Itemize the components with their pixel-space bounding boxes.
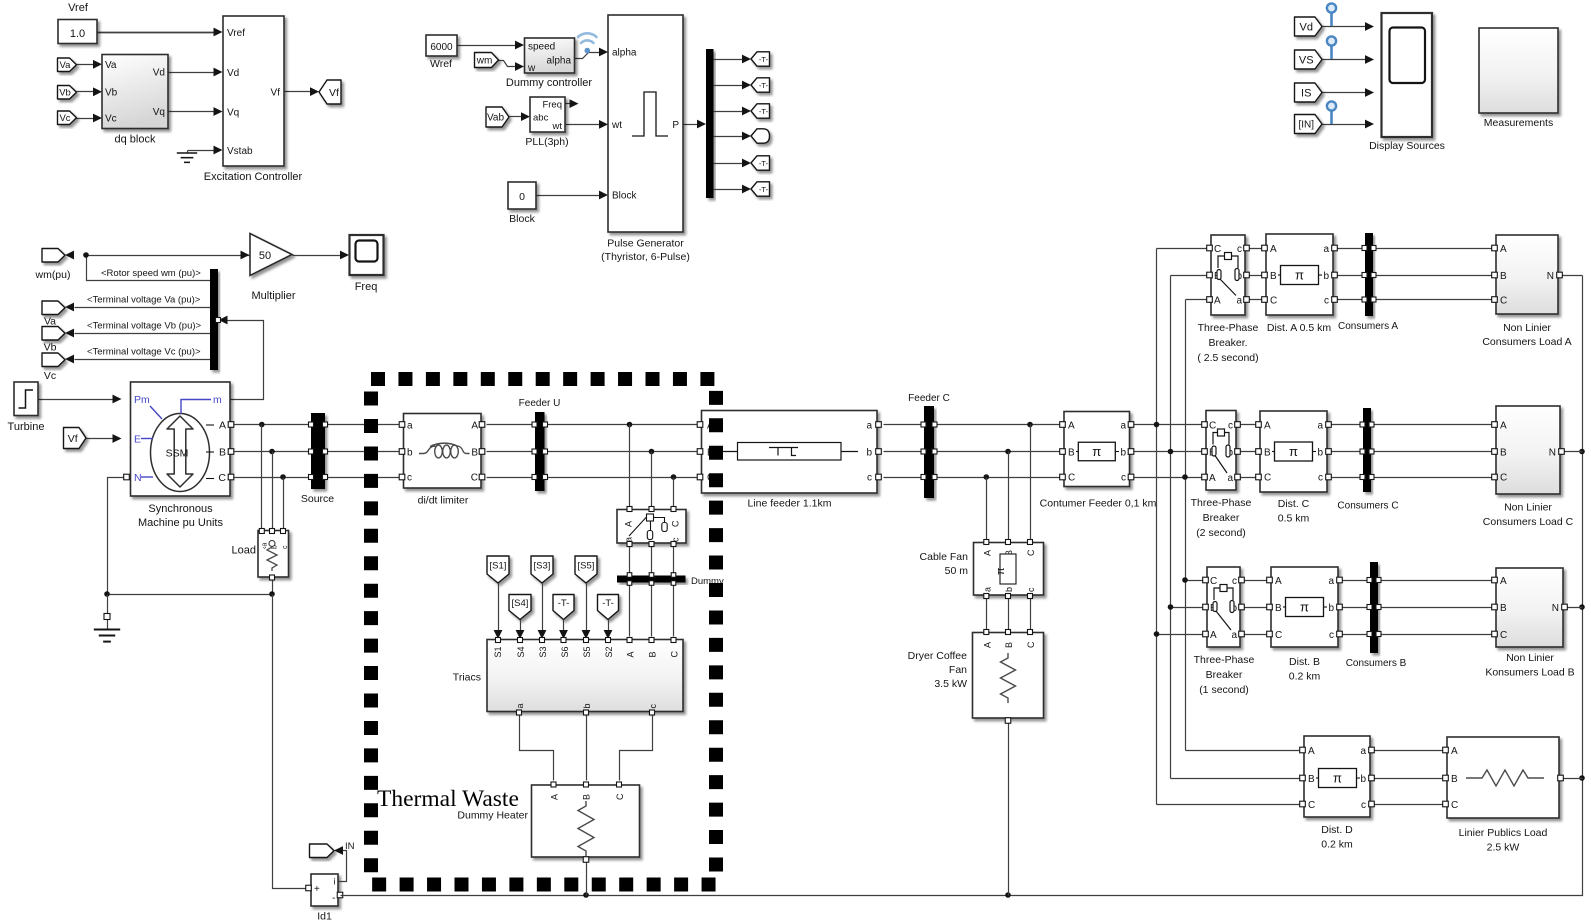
svg-text:Dummy controller: Dummy controller [506, 77, 593, 89]
wire tap C down to Dummy switch [673, 478, 675, 507]
svg-text:B: B [1275, 603, 1282, 614]
port squares Contumer Feeder [1060, 422, 1066, 428]
svg-text:B: B [1308, 774, 1315, 785]
block Contumer Feeder 0,1 km [1064, 412, 1130, 487]
constant block Vref 1.0 [58, 20, 97, 44]
wire tap A down to Load [261, 425, 263, 531]
block Dummy Heater [532, 785, 640, 857]
measurement bar Feeder C [924, 406, 934, 498]
svg-text:A: A [1308, 746, 1315, 757]
svg-text:w: w [527, 63, 536, 74]
port squares Line feeder [697, 422, 703, 428]
input tag [IN] [1295, 115, 1323, 134]
wire rotor speed from bus selector to wm(pu) tag and Multiplier [87, 256, 251, 281]
port squares Linier Publics Load [1443, 747, 1449, 753]
wire Dist A to Consumers A bar x3 [1334, 248, 1366, 250]
svg-text:A: A [1209, 473, 1216, 484]
block Load [258, 531, 289, 578]
block Three-Phase Breaker 1 second [1207, 567, 1240, 647]
wire Vref constant to Excitation Vref input [98, 32, 215, 34]
svg-text:A: A [1500, 421, 1507, 432]
wire Triacs c to Dummy Heater C [620, 715, 653, 781]
svg-text:b: b [1004, 587, 1014, 592]
block Non Linier Konsumers Load B [1496, 568, 1563, 647]
svg-text:a: a [1323, 244, 1329, 255]
measurement bar Consumers B [1370, 562, 1378, 653]
vertical distribution wire 1 [1156, 249, 1158, 805]
goto tag -T- 3 [751, 104, 770, 118]
svg-text:(Thyristor, 6-Pulse): (Thyristor, 6-Pulse) [601, 251, 690, 263]
vertical distribution wire 2 [1170, 276, 1172, 779]
svg-text:Vref: Vref [227, 28, 245, 39]
svg-text:Three-Phase: Three-Phase [1194, 654, 1255, 666]
svg-text:c: c [1329, 630, 1334, 641]
svg-text:a: a [866, 421, 872, 432]
svg-text:c: c [1228, 421, 1233, 432]
svg-text:IS: IS [1301, 87, 1311, 99]
wire phase A di/dt to Line feeder [487, 424, 698, 426]
subsystem PLL(3ph) [530, 97, 565, 132]
svg-text:c: c [648, 704, 658, 709]
junction neutral right [269, 591, 275, 597]
svg-text:Feeder U: Feeder U [519, 398, 561, 409]
svg-text:c: c [1324, 296, 1329, 307]
wire phase A Source to di/dt limiter [326, 424, 400, 426]
wire Breaker C to Dist C x3 [1237, 424, 1261, 426]
wire neutral down to ground [107, 595, 109, 630]
subsystem Dummy controller [525, 38, 575, 73]
svg-text:SSM: SSM [166, 448, 189, 460]
svg-text:π: π [995, 567, 1007, 575]
svg-text:wm(pu): wm(pu) [34, 269, 70, 281]
junction NL load B neutral [1579, 604, 1585, 610]
junction phase C to Dummy switch [671, 474, 677, 480]
wire NL Load C N to neutral [1561, 451, 1583, 453]
junction NL load C neutral [1579, 449, 1585, 455]
goto tag -T- 4 [751, 129, 770, 143]
svg-text:a: a [407, 421, 413, 432]
demux bar after Pulse Generator [706, 49, 714, 198]
svg-text:π: π [1295, 268, 1304, 283]
wire phase C di/dt to Line feeder [487, 477, 698, 479]
wire tap C down to Load [283, 478, 285, 531]
svg-text:c: c [1121, 473, 1126, 484]
svg-text:VS: VS [1299, 54, 1314, 66]
wire VS tag to Display Sources [1323, 59, 1366, 61]
port squares Source bar [309, 422, 314, 427]
svg-text:Pulse Generator: Pulse Generator [607, 238, 684, 250]
constant block 6000 Wref [426, 35, 457, 56]
svg-text:A: A [1500, 576, 1507, 587]
svg-text:abc: abc [533, 113, 549, 124]
svg-text:C: C [1264, 473, 1271, 484]
svg-text:wt: wt [611, 120, 622, 131]
wire Breaker B to Dist B x3 [1241, 580, 1272, 582]
svg-text:N: N [1547, 271, 1554, 282]
svg-text:B: B [1451, 774, 1458, 785]
goto tag -T- 6 [751, 182, 770, 196]
svg-text:C: C [1026, 641, 1036, 648]
goto tag -T- 1 [751, 52, 770, 66]
svg-text:Fan: Fan [949, 664, 967, 676]
wire Consumers C bar to NL Load C x3 [1372, 424, 1497, 426]
subsystem dq block [102, 55, 168, 129]
svg-text:C: C [218, 472, 226, 484]
junction v3 breaker B [1182, 577, 1188, 583]
subsystem Measurements [1479, 28, 1558, 113]
wire Excitation Vf output to Vf goto tag [285, 91, 311, 93]
svg-text:-: - [332, 893, 335, 904]
measurement bar Dummy [617, 576, 686, 583]
port squares Feeder U bar [532, 422, 537, 427]
svg-text:A: A [982, 642, 992, 648]
svg-text:Vq: Vq [153, 107, 165, 118]
block Cable Fan 50 m [974, 543, 1044, 596]
rotated breaker block Dummy switch [617, 510, 686, 544]
svg-text:c: c [1026, 587, 1036, 592]
junction neutral left [104, 591, 110, 597]
junction phase B to Load [269, 449, 275, 455]
svg-text:C: C [1308, 800, 1315, 811]
wire v1 to Dist D C [1157, 804, 1305, 806]
wire demux output 6 to goto tag [714, 189, 744, 191]
svg-text:Triacs: Triacs [453, 672, 481, 684]
svg-text:<Terminal voltage Va (pu)>: <Terminal voltage Va (pu)> [87, 295, 201, 306]
svg-text:Cable Fan: Cable Fan [920, 551, 969, 563]
svg-text:C: C [1270, 296, 1277, 307]
measurement pin on VS wire [1327, 36, 1336, 59]
svg-text:-T-: -T- [759, 107, 769, 116]
wire v3 to Breaker A bottom [1186, 299, 1212, 301]
wire -T- to Triacs S6 [563, 620, 565, 631]
junction v2 breaker B [1168, 604, 1174, 610]
svg-text:Consumers Load C: Consumers Load C [1483, 516, 1574, 528]
svg-text:1.0: 1.0 [70, 28, 85, 40]
svg-text:S3: S3 [538, 646, 548, 657]
wire [IN] tag to Display Sources [1323, 124, 1366, 126]
output tag IN [310, 844, 335, 858]
svg-text:-T-: -T- [558, 598, 570, 609]
svg-text:A: A [1214, 296, 1221, 307]
svg-text:Freq: Freq [542, 100, 562, 111]
input tag Va [58, 58, 77, 72]
svg-text:Vstab: Vstab [227, 146, 253, 157]
junction v2 phase b [1168, 449, 1174, 455]
svg-text:( 2.5 second): ( 2.5 second) [1197, 352, 1258, 364]
junction phase C to Load [280, 474, 286, 480]
wire phase b Line feeder to Feeder C [884, 451, 925, 453]
svg-text:-T-: -T- [759, 185, 769, 194]
block Dist D 0.2 km [1304, 736, 1370, 817]
port squares di/dt limiter [399, 422, 405, 428]
wire v1 to Breaker B bottom [1157, 634, 1208, 636]
svg-text:b: b [866, 448, 872, 459]
svg-text:c: c [1318, 473, 1323, 484]
wire Triacs b to Dummy Heater B [586, 715, 588, 781]
vertical distribution wire 3 [1185, 300, 1187, 751]
svg-text:6000: 6000 [430, 42, 453, 53]
svg-text:C: C [1210, 576, 1217, 587]
wire phase B di/dt to Line feeder [487, 451, 698, 453]
port squares Dryer [984, 630, 989, 635]
svg-text:A: A [1068, 421, 1075, 432]
svg-text:Non Linier: Non Linier [1504, 502, 1552, 514]
junction tap to Cable Fan B [1005, 449, 1011, 455]
svg-text:a: a [1328, 576, 1334, 587]
svg-text:<Terminal voltage Vb (pu)>: <Terminal voltage Vb (pu)> [87, 321, 202, 332]
svg-text:Vf: Vf [271, 88, 281, 99]
from tag -T- S2 [598, 595, 619, 620]
wire PLL Freq floating arrow [566, 103, 571, 105]
wire Dist D to Linier Publics Load x3 [1371, 750, 1448, 752]
svg-text:B: B [471, 448, 478, 459]
svg-text:c: c [407, 473, 412, 484]
svg-text:C: C [1500, 630, 1507, 641]
wire bottom neutral bus [341, 276, 1583, 896]
wire Consumers B bar to NL Load B x3 [1379, 580, 1497, 582]
svg-text:+: + [314, 884, 320, 895]
svg-text:speed: speed [528, 42, 555, 53]
svg-text:Vb: Vb [44, 342, 57, 354]
wire Vf tag to machine E [87, 438, 113, 440]
port squares Load block [259, 529, 264, 534]
block Non Linier Consumers Load C [1496, 406, 1560, 494]
svg-text:Dryer Coffee: Dryer Coffee [908, 650, 967, 662]
svg-text:[S1]: [S1] [490, 560, 507, 571]
junction rotor speed [83, 252, 89, 258]
wire PLL wt to Pulse Generator wt [566, 124, 600, 126]
block Three-Phase Breaker 2.5 second [1211, 235, 1245, 315]
svg-text:B: B [219, 447, 226, 459]
svg-text:<Rotor speed wm (pu)>: <Rotor speed wm (pu)> [101, 268, 201, 279]
goto tag -T- 5 [751, 156, 770, 170]
wire tap B down to Dummy switch [651, 452, 653, 507]
wire Breaker A to Dist A x3 [1246, 248, 1267, 250]
wire wm tag to Dummy controller w [499, 61, 516, 67]
svg-text:IN: IN [345, 841, 355, 852]
svg-text:alpha: alpha [612, 48, 637, 59]
svg-text:a: a [1227, 473, 1233, 484]
wire Dummy Heater bottom to bus [586, 861, 588, 896]
svg-text:P: P [672, 120, 679, 131]
output tag wm(pu) [42, 249, 65, 263]
wire Dist C to Consumers C bar x3 [1328, 424, 1364, 426]
block Three-Phase Breaker 2 second [1206, 411, 1236, 491]
wire phase a Line feeder to Feeder C [884, 424, 925, 426]
svg-text:B: B [1500, 448, 1507, 459]
wire Cable Fan a to Dryer A [986, 599, 988, 630]
svg-text:Dist. A 0.5 km: Dist. A 0.5 km [1267, 322, 1331, 334]
subsystem Excitation Controller [223, 16, 284, 166]
input tag wm [475, 53, 499, 68]
svg-text:b: b [582, 703, 592, 708]
svg-text:Vc: Vc [105, 114, 117, 125]
svg-text:Source: Source [301, 493, 334, 505]
port squares Breaker A [1207, 245, 1213, 251]
svg-text:Dist. C: Dist. C [1278, 498, 1310, 510]
svg-text:Vab: Vab [487, 113, 504, 124]
input tag Vb [58, 86, 77, 100]
port squares Dist C [1256, 422, 1262, 428]
wire [S3] to Triacs S3 [542, 584, 544, 631]
block Dryer Coffee Fan 3.5 kW [973, 633, 1044, 719]
wire phase c Feeder C to Contumer Feeder [935, 477, 1062, 479]
svg-text:N: N [1552, 603, 1559, 614]
svg-text:50 m: 50 m [945, 565, 969, 577]
svg-text:Consumers A: Consumers A [1338, 321, 1398, 332]
svg-text:b: b [1323, 271, 1329, 282]
block Dist B 0.2 km [1271, 567, 1338, 647]
svg-text:Vref: Vref [68, 2, 89, 14]
wire Cable Fan b to Dryer B [1008, 599, 1010, 630]
svg-text:A: A [1500, 244, 1507, 255]
output tag Vb mid [42, 327, 65, 341]
svg-text:a: a [1231, 630, 1237, 641]
junction tap to Cable Fan A [984, 474, 990, 480]
port squares Feeder C bar [921, 422, 926, 427]
wire tap down to Cable Fan C [1030, 425, 1032, 540]
wire Dist B to Consumers B bar x3 [1339, 580, 1371, 582]
svg-text:C: C [1500, 473, 1507, 484]
svg-text:E: E [134, 434, 141, 446]
svg-text:B: B [1500, 271, 1507, 282]
wire Dryer bottom to bus [1008, 722, 1010, 896]
wire phase C Source to di/dt limiter [326, 477, 400, 479]
wire tap down to Cable Fan B [1008, 452, 1010, 540]
wire Vd tag to Display Sources [1323, 26, 1366, 28]
svg-text:-T-: -T- [759, 159, 769, 168]
wire v2 to Dist D B [1171, 778, 1305, 780]
svg-text:Vc: Vc [44, 370, 56, 382]
svg-text:A: A [1270, 244, 1277, 255]
block Linier Publics Load 2.5 kW [1447, 737, 1559, 818]
wire demux output 1 to goto tag [714, 59, 744, 61]
scope block Freq [350, 235, 384, 275]
svg-text:A: A [625, 651, 635, 657]
port squares NL Load B [1492, 577, 1498, 583]
svg-text:Thermal Waste: Thermal Waste [377, 786, 519, 812]
svg-text:C: C [1500, 296, 1507, 307]
port squares machine outputs [228, 422, 234, 428]
svg-text:[S4]: [S4] [512, 598, 529, 609]
svg-text:2.5 kW: 2.5 kW [1487, 842, 1520, 854]
svg-text:-T-: -T- [759, 81, 769, 90]
svg-text:Linier Publics Load: Linier Publics Load [1459, 827, 1548, 839]
block Dist C 0.5 km [1260, 411, 1327, 492]
wire [S1] to Triacs S1 [498, 584, 500, 631]
svg-text:Multiplier: Multiplier [251, 290, 295, 302]
wire Multiplier to Freq scope [293, 255, 341, 257]
input tag IS [1295, 83, 1323, 102]
junction Dryer to bus [1005, 892, 1011, 898]
svg-text:A: A [982, 550, 992, 556]
wire Linier Publics Load output to neutral [1560, 778, 1583, 780]
block Synchronous Machine pu Units [131, 382, 231, 496]
svg-text:π: π [1289, 444, 1298, 459]
svg-text:Vf: Vf [68, 433, 78, 445]
svg-text:-T-: -T- [602, 598, 614, 609]
svg-text:di/dt limiter: di/dt limiter [418, 495, 469, 507]
svg-text:Vf: Vf [329, 87, 339, 99]
wire neutral down to Id1 plus [273, 595, 307, 889]
svg-text:Non Linier: Non Linier [1506, 652, 1554, 664]
port squares Consumers A bar [1362, 246, 1367, 251]
wire phase C machine to Source [231, 477, 312, 479]
svg-text:b: b [407, 448, 413, 459]
svg-text:‹a: ‹a [262, 543, 269, 549]
wire -T- to Triacs S2 [608, 620, 610, 631]
svg-text:m: m [213, 394, 222, 406]
wire Pulse Generator P to demux [684, 124, 698, 126]
svg-text:0.5 km: 0.5 km [1278, 513, 1310, 525]
input tag VS [1295, 50, 1323, 69]
svg-text:Va: Va [105, 60, 117, 71]
bus selector bar [210, 269, 218, 370]
wire phase B Source to di/dt limiter [326, 451, 400, 453]
svg-text:b: b [1328, 603, 1334, 614]
svg-text:Vd: Vd [1300, 21, 1313, 33]
svg-text:π: π [1333, 771, 1342, 786]
svg-text:C: C [1026, 549, 1036, 556]
wire machine m output to bus selector input [228, 321, 264, 400]
ground symbol [94, 630, 120, 642]
svg-text:c: c [1237, 244, 1242, 255]
svg-text:Vc: Vc [59, 113, 70, 124]
svg-text:dq block: dq block [115, 134, 156, 146]
block Non Linier Consumers Load A [1496, 235, 1558, 314]
svg-text:Dist. D: Dist. D [1321, 824, 1353, 836]
wire demux output 5 to goto tag [714, 163, 744, 165]
wire dq Vq to Excitation Vq [169, 111, 215, 113]
svg-text:C: C [1451, 800, 1458, 811]
junction phase A to Load [259, 422, 265, 428]
wireless annotation arcs [578, 33, 597, 43]
svg-text:Line feeder 1.1km: Line feeder 1.1km [747, 498, 831, 510]
wire Cable Fan c to Dryer C [1030, 599, 1032, 630]
svg-text:c: c [1361, 800, 1366, 811]
wire dq Vd to Excitation Vd [169, 72, 215, 74]
wire v2 to Breaker B mid [1171, 607, 1208, 609]
measurement bar Source [311, 413, 325, 489]
port Dryer bottom [1005, 718, 1011, 724]
svg-text:C: C [1209, 421, 1216, 432]
svg-text:N: N [1549, 448, 1556, 459]
svg-text:c: c [867, 473, 872, 484]
wire v3 to Dist D A [1186, 750, 1305, 752]
step block Turbine [14, 382, 38, 416]
port squares Dist A [1262, 245, 1268, 251]
junction phase B to Dummy switch [649, 449, 655, 455]
junction Dummy Heater to bus [583, 892, 589, 898]
svg-text:Vd: Vd [153, 68, 165, 79]
wire Load bottom to neutral junction [272, 579, 274, 595]
svg-text:(2 second): (2 second) [1196, 527, 1246, 539]
wire tap down to Cable Fan A [986, 478, 988, 540]
wire demux output 4 to goto tag [714, 136, 744, 138]
svg-text:Pm: Pm [134, 394, 150, 406]
svg-text:C: C [671, 520, 681, 527]
svg-text:A: A [1210, 630, 1217, 641]
svg-text:Va: Va [44, 316, 56, 328]
svg-text:c: c [1232, 576, 1237, 587]
svg-text:Consumers Load A: Consumers Load A [1482, 336, 1571, 348]
wire phase b Contumer to Breaker C [1130, 451, 1207, 453]
wire phase B machine to Source [231, 451, 312, 453]
port squares Dummy bar [627, 573, 632, 578]
port squares Consumers B bar [1367, 578, 1372, 583]
svg-text:[IN]: [IN] [1298, 120, 1314, 131]
svg-text:Turbine: Turbine [8, 421, 45, 433]
